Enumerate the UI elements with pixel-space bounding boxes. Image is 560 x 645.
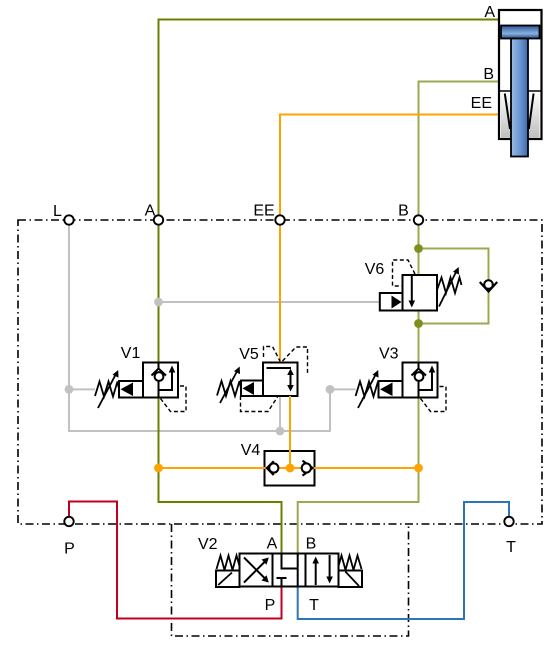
- svg-text:P: P: [265, 597, 276, 614]
- svg-text:T: T: [309, 597, 319, 614]
- svg-text:A: A: [145, 203, 156, 220]
- svg-text:V6: V6: [365, 261, 385, 278]
- svg-text:P: P: [64, 541, 75, 558]
- svg-text:V5: V5: [239, 346, 259, 363]
- svg-text:V2: V2: [198, 536, 218, 553]
- svg-text:B: B: [398, 203, 409, 220]
- svg-text:B: B: [306, 536, 317, 553]
- svg-text:V4: V4: [241, 442, 261, 459]
- svg-text:L: L: [53, 203, 62, 220]
- svg-text:EE: EE: [253, 203, 274, 220]
- svg-text:V1: V1: [121, 345, 141, 362]
- svg-text:V3: V3: [379, 346, 399, 363]
- svg-text:EE: EE: [471, 95, 492, 112]
- svg-text:A: A: [267, 536, 278, 553]
- svg-text:T: T: [506, 539, 516, 556]
- svg-text:B: B: [483, 66, 494, 83]
- svg-text:A: A: [484, 4, 495, 21]
